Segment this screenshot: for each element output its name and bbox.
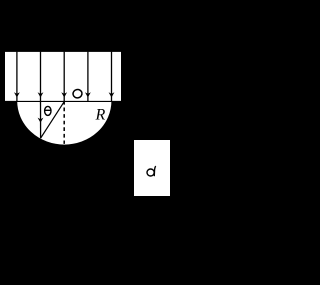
rectangle bottom border / flat surface line	[4, 100, 122, 102]
vertical ray inside glass with arrowhead	[38, 101, 44, 138]
arrow 2	[38, 52, 44, 102]
label d	[147, 166, 156, 176]
d box	[134, 140, 170, 196]
dashed vertical line from O	[63, 101, 65, 144]
arrow 4	[85, 52, 91, 102]
glass semicircle (lower half of ellipse)	[17, 57, 113, 146]
arrow 3	[61, 52, 67, 102]
load rectangle (flat top block)	[5, 52, 121, 101]
arrow 5	[109, 52, 115, 102]
label theta (drawn)	[44, 106, 51, 115]
arrow 1	[14, 52, 20, 102]
label O (drawn)	[72, 89, 83, 99]
svg-text:R: R	[95, 107, 106, 124]
radius line O to P	[41, 101, 65, 138]
